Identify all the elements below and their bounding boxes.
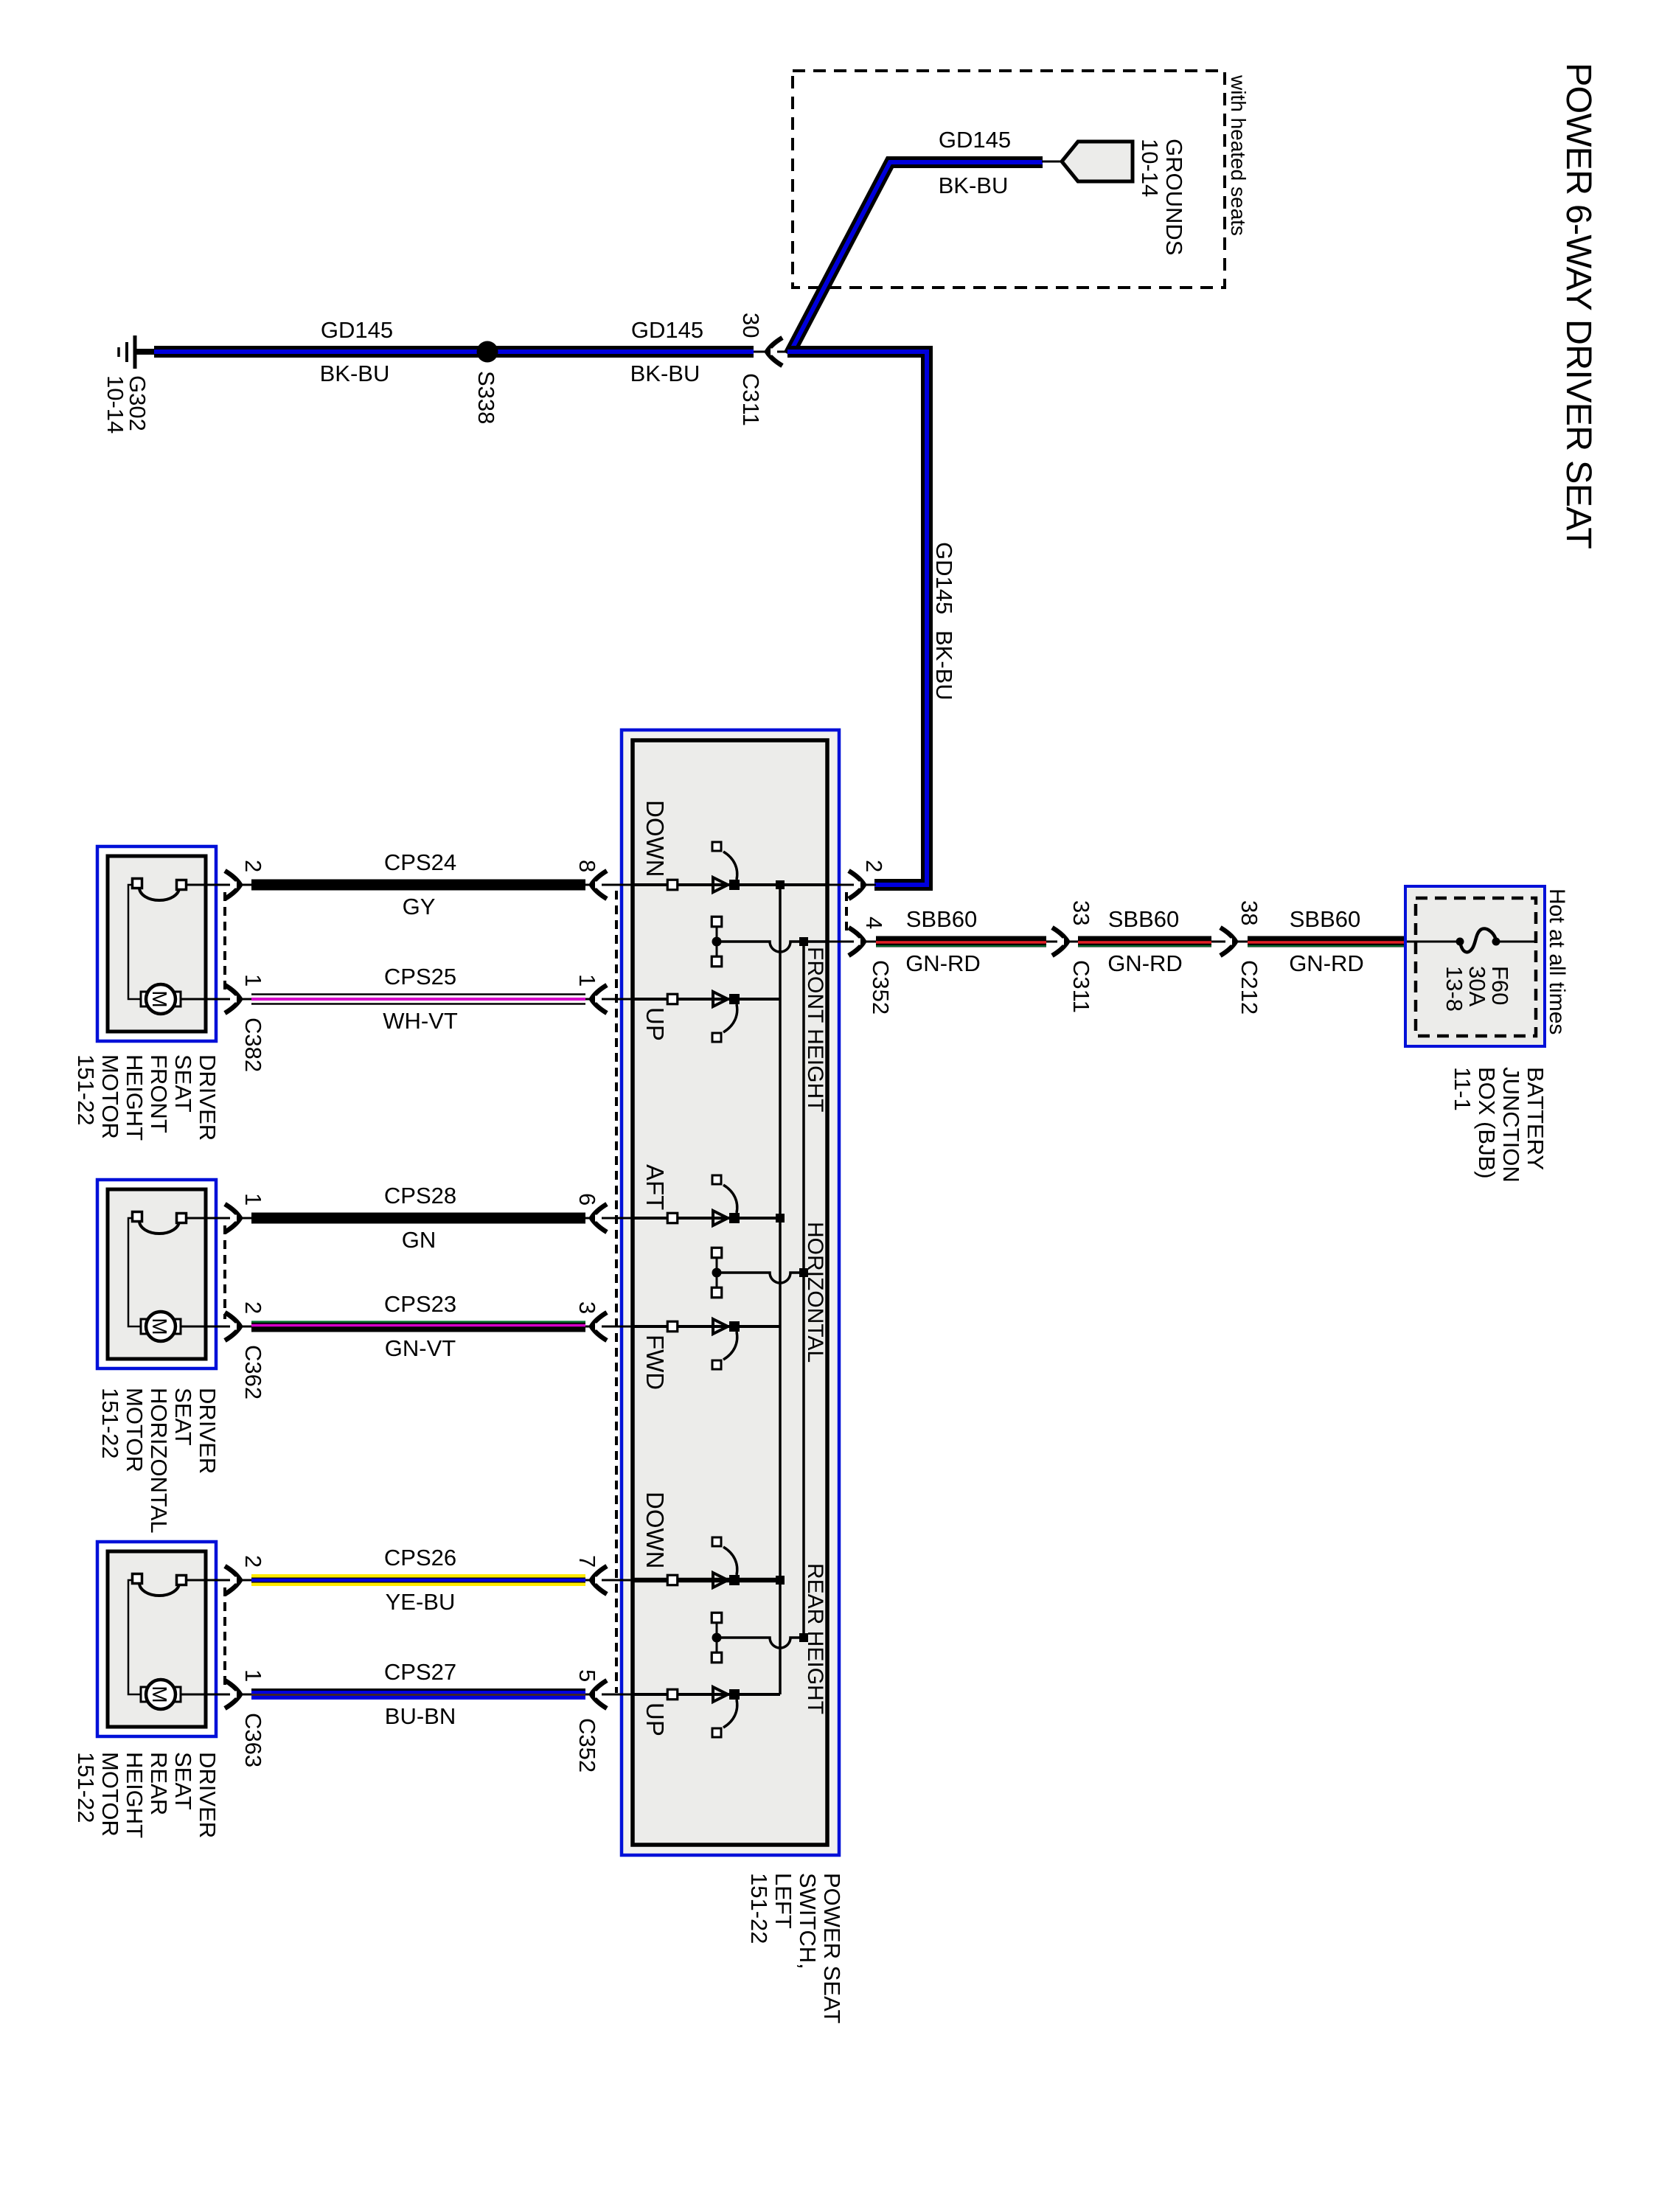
svg-text:AFT: AFT	[641, 1164, 669, 1210]
inline connector pin 30 C311	[754, 351, 789, 353]
svg-text:GN-RD: GN-RD	[1107, 950, 1183, 976]
svg-text:FWD: FWD	[641, 1335, 669, 1390]
switch right pin 2	[826, 884, 876, 886]
svg-text:4: 4	[861, 917, 887, 929]
svg-text:DRIVER: DRIVER	[195, 1388, 220, 1474]
wire CPS24 GY	[251, 880, 585, 891]
svg-text:HORIZONTAL: HORIZONTAL	[803, 1222, 827, 1363]
wire SBB60 GN-RD segment 1	[876, 936, 1046, 947]
svg-text:UP: UP	[641, 1703, 669, 1736]
svg-text:151-22: 151-22	[73, 1752, 99, 1823]
switch contact DOWN front height	[667, 880, 678, 890]
svg-text:1: 1	[574, 974, 600, 987]
svg-text:2: 2	[240, 1555, 266, 1568]
motor box driver seat rear height motor	[97, 1542, 216, 1736]
switch feed pole front height	[712, 917, 722, 927]
svg-text:38: 38	[1237, 900, 1262, 925]
svg-text:11-1: 11-1	[1450, 1067, 1475, 1111]
svg-text:DRIVER: DRIVER	[195, 1752, 220, 1838]
svg-text:1: 1	[240, 974, 266, 987]
splice S338	[477, 341, 498, 363]
svg-text:FRONT: FRONT	[146, 1054, 172, 1133]
wire GD145 BK-BU down to power seat switch	[787, 352, 927, 885]
svg-text:HORIZONTAL: HORIZONTAL	[146, 1388, 172, 1534]
svg-text:CPS24: CPS24	[384, 849, 456, 875]
svg-text:GD145: GD145	[321, 317, 393, 343]
svg-text:SBB60: SBB60	[906, 906, 978, 932]
svg-text:BU-BN: BU-BN	[385, 1703, 456, 1729]
motor box driver seat front height motor	[97, 846, 216, 1041]
svg-text:BOX (BJB): BOX (BJB)	[1474, 1067, 1500, 1179]
svg-text:8: 8	[574, 860, 600, 872]
svg-text:GN-VT: GN-VT	[385, 1335, 456, 1361]
svg-text:2: 2	[240, 1301, 266, 1314]
svg-text:GD145: GD145	[939, 127, 1011, 153]
power seat switch, left box	[622, 730, 839, 1855]
switch row wire pin 5 UP	[634, 1693, 780, 1696]
svg-text:6: 6	[574, 1193, 600, 1206]
wire CPS23 GN-VT	[251, 1323, 585, 1332]
svg-text:DRIVER: DRIVER	[195, 1054, 220, 1141]
svg-text:GY: GY	[403, 894, 436, 919]
svg-text:Hot at all times: Hot at all times	[1545, 888, 1569, 1034]
svg-text:CPS26: CPS26	[384, 1545, 456, 1571]
switch row wire pin 1 UP	[634, 998, 780, 1001]
svg-text:C352: C352	[868, 960, 894, 1015]
pin 2 arrow	[225, 1312, 240, 1340]
svg-text:3: 3	[574, 1301, 600, 1314]
svg-text:7: 7	[574, 1555, 600, 1568]
svg-text:DOWN: DOWN	[641, 1492, 669, 1568]
svg-text:with heated seats: with heated seats	[1227, 74, 1250, 236]
svg-text:GN-RD: GN-RD	[1289, 950, 1364, 976]
inline connector pin 33 C311	[1046, 941, 1079, 943]
svg-text:10-14: 10-14	[102, 375, 128, 434]
svg-text:DOWN: DOWN	[641, 800, 669, 877]
switch feed pole horizontal	[712, 1248, 722, 1258]
wire CPS27 BU-BN	[251, 1688, 585, 1691]
svg-text:GN-RD: GN-RD	[905, 950, 981, 976]
wire CPS25 WH-VT	[251, 993, 585, 995]
motor box driver seat horizontal motor	[97, 1180, 216, 1368]
svg-text:C382: C382	[240, 1018, 266, 1072]
wire SBB60 GN-RD segment 3	[1248, 936, 1406, 947]
svg-text:FRONT HEIGHT: FRONT HEIGHT	[803, 947, 827, 1112]
svg-text:30: 30	[738, 313, 764, 338]
svg-text:F60: F60	[1487, 966, 1513, 1005]
svg-text:POWER SEAT: POWER SEAT	[819, 1873, 845, 2023]
svg-text:M: M	[148, 1686, 171, 1703]
switch contact AFT horizontal	[667, 1213, 678, 1223]
switch feed pole rear height	[712, 1613, 722, 1623]
switch left pin 5	[585, 1694, 634, 1696]
svg-text:SEAT: SEAT	[170, 1388, 196, 1446]
svg-text:C352: C352	[574, 1718, 600, 1773]
switch left pin 6	[585, 1217, 634, 1220]
switch ground bus	[779, 885, 782, 1694]
svg-text:CPS23: CPS23	[384, 1291, 456, 1317]
switch left pin 1	[585, 998, 634, 1001]
battery junction box (BJB)	[1405, 886, 1545, 1046]
svg-text:M: M	[148, 990, 171, 1007]
svg-text:1: 1	[240, 1193, 266, 1206]
svg-text:SBB60: SBB60	[1290, 906, 1361, 932]
wire CPS26 YE-BU	[251, 1574, 585, 1586]
svg-text:151-22: 151-22	[97, 1388, 123, 1459]
svg-text:C311: C311	[1068, 960, 1094, 1013]
pin 1 arrow	[225, 1680, 240, 1708]
switch left pin 8	[585, 884, 634, 886]
svg-text:POWER 6-WAY DRIVER SEAT: POWER 6-WAY DRIVER SEAT	[1559, 63, 1599, 549]
svg-text:SWITCH,: SWITCH,	[795, 1873, 821, 1969]
switch contact FWD horizontal	[667, 1321, 678, 1332]
svg-text:2: 2	[240, 860, 266, 872]
svg-text:SEAT: SEAT	[170, 1752, 196, 1810]
svg-text:BK-BU: BK-BU	[630, 361, 700, 386]
svg-text:WH-VT: WH-VT	[383, 1008, 458, 1034]
switch contact UP front height	[667, 994, 678, 1004]
fuse F60 30A	[1407, 941, 1458, 943]
svg-text:BK-BU: BK-BU	[939, 173, 1009, 198]
svg-text:JUNCTION: JUNCTION	[1498, 1067, 1524, 1183]
switch row wire pin 3 FWD	[634, 1325, 780, 1328]
switch feed bus	[802, 942, 805, 1638]
switch row wire pin 7 DOWN	[634, 1578, 780, 1583]
svg-text:C363: C363	[240, 1713, 266, 1767]
svg-text:2: 2	[861, 860, 887, 872]
svg-text:BK-BU: BK-BU	[320, 361, 390, 386]
svg-text:MOTOR: MOTOR	[122, 1388, 147, 1472]
svg-text:REAR HEIGHT: REAR HEIGHT	[803, 1563, 827, 1714]
svg-text:33: 33	[1068, 900, 1094, 925]
svg-text:GD145: GD145	[931, 542, 957, 614]
connector C352 dashed line right	[845, 892, 848, 935]
wire GD145 BK-BU diagonal to GROUNDS	[789, 162, 1043, 355]
svg-text:LEFT: LEFT	[771, 1873, 796, 1929]
svg-text:MOTOR: MOTOR	[97, 1752, 123, 1837]
switch row wire pin 6 AFT	[634, 1217, 780, 1220]
connector C363 dashed	[223, 1587, 226, 1687]
svg-text:YE-BU: YE-BU	[386, 1589, 456, 1615]
svg-text:CPS27: CPS27	[384, 1659, 456, 1685]
svg-text:13-8: 13-8	[1441, 966, 1467, 1012]
svg-text:5: 5	[574, 1669, 600, 1682]
connector C382 dashed	[223, 892, 226, 992]
svg-text:GN: GN	[402, 1227, 437, 1253]
pin 1 arrow	[225, 985, 240, 1013]
svg-text:1: 1	[240, 1669, 266, 1682]
svg-text:10-14: 10-14	[1137, 139, 1163, 197]
switch left pin 7	[585, 1579, 634, 1582]
svg-text:BATTERY: BATTERY	[1523, 1067, 1548, 1170]
pin 2 arrow	[225, 871, 240, 899]
svg-text:GROUNDS: GROUNDS	[1161, 139, 1187, 255]
svg-text:GD145: GD145	[631, 317, 703, 343]
dashed box: with heated seats option	[793, 71, 1225, 288]
svg-text:151-22: 151-22	[746, 1873, 772, 1944]
pin 1 arrow	[225, 1204, 240, 1232]
wire CPS28 GN	[251, 1213, 585, 1224]
switch contact UP rear height	[667, 1689, 678, 1700]
svg-text:HEIGHT: HEIGHT	[122, 1054, 147, 1141]
switch contact DOWN rear height	[667, 1575, 678, 1585]
svg-text:CPS28: CPS28	[384, 1183, 456, 1208]
svg-text:SBB60: SBB60	[1108, 906, 1180, 932]
svg-text:M: M	[148, 1318, 171, 1335]
svg-text:CPS25: CPS25	[384, 964, 456, 990]
svg-text:SEAT: SEAT	[170, 1054, 196, 1113]
svg-text:C362: C362	[240, 1345, 266, 1399]
wire SBB60 GN-RD segment 2	[1078, 936, 1211, 947]
svg-text:HEIGHT: HEIGHT	[122, 1752, 147, 1838]
svg-text:C212: C212	[1237, 960, 1262, 1015]
svg-text:UP: UP	[641, 1007, 669, 1041]
switch row wire pin 8 DOWN (full width to pin 2)	[634, 883, 826, 886]
svg-text:151-22: 151-22	[73, 1054, 99, 1126]
switch right pin 4	[826, 941, 876, 943]
switch left pin 3	[585, 1326, 634, 1328]
pin 2 arrow	[225, 1566, 240, 1594]
connector GROUNDS 10-14	[1042, 161, 1062, 163]
svg-text:S338: S338	[473, 371, 499, 424]
inline connector pin 38 C212	[1211, 941, 1249, 943]
svg-text:REAR: REAR	[146, 1752, 172, 1815]
svg-text:BK-BU: BK-BU	[931, 630, 957, 700]
svg-text:MOTOR: MOTOR	[97, 1054, 123, 1139]
ground G302	[133, 335, 137, 369]
svg-text:C311: C311	[738, 373, 764, 426]
connector C352 dashed line left	[615, 891, 618, 1693]
svg-text:30A: 30A	[1464, 966, 1490, 1006]
connector C362 dashed	[223, 1225, 226, 1319]
wire GD145 BK-BU from G302 to C311	[154, 346, 754, 358]
